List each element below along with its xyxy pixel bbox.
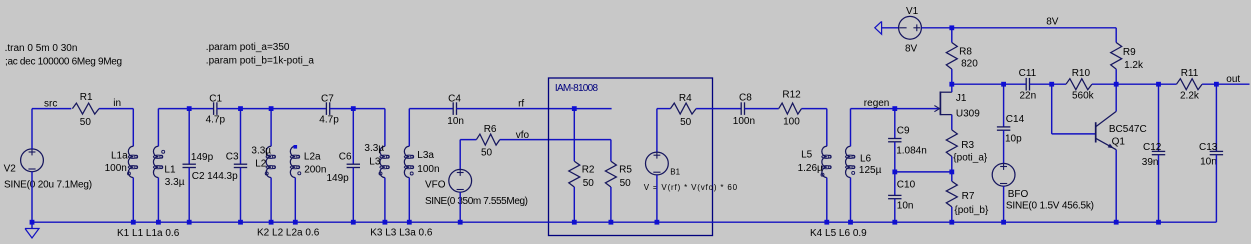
- junction: [655, 220, 660, 225]
- svg-text:560k: 560k: [1072, 91, 1095, 102]
- svg-text:3.3µ: 3.3µ: [364, 143, 384, 154]
- wire: [294, 178, 296, 223]
- svg-text:in: in: [113, 98, 121, 109]
- svg-text:R5: R5: [619, 164, 632, 175]
- svg-text:R1: R1: [80, 92, 93, 103]
- wire: [1115, 28, 1117, 43]
- svg-text:IAM-81008: IAM-81008: [555, 83, 599, 94]
- svg-text:L6: L6: [860, 153, 872, 164]
- wire: [1215, 155, 1217, 223]
- svg-text:100: 100: [783, 117, 800, 128]
- svg-text:.param poti_a=350: .param poti_a=350: [206, 42, 290, 53]
- svg-text:R6: R6: [484, 124, 497, 135]
- svg-text:V2: V2: [4, 164, 17, 175]
- spice directive K2: [257, 227, 320, 238]
- jfet J1: [934, 92, 980, 120]
- wire: [99, 108, 133, 110]
- junction: [1114, 82, 1119, 87]
- svg-text:K3 L3 L3a 0.6: K3 L3 L3a 0.6: [370, 227, 433, 238]
- capacitor C13: [1199, 142, 1223, 168]
- junction: [949, 25, 954, 30]
- svg-text:SINE(0 20u 7.1Meg): SINE(0 20u 7.1Meg): [4, 179, 92, 190]
- wire: [188, 109, 190, 165]
- svg-text:R11: R11: [1181, 68, 1199, 79]
- wire: [457, 108, 612, 110]
- junction: [238, 220, 243, 225]
- wire: [657, 108, 671, 110]
- resistor R12: [779, 90, 802, 128]
- wire: [951, 69, 953, 84]
- junction: [407, 220, 412, 225]
- wire: [895, 171, 952, 173]
- spice directive K3: [370, 227, 433, 238]
- wire: [1115, 150, 1117, 223]
- svg-text:C4: C4: [448, 94, 461, 105]
- junction: [156, 220, 161, 225]
- svg-text:B1: B1: [670, 167, 680, 176]
- svg-text:out: out: [1226, 74, 1240, 85]
- spice directive K1: [117, 228, 180, 239]
- svg-text:100n: 100n: [417, 164, 439, 175]
- resistor R8: [946, 43, 978, 70]
- svg-text:50: 50: [620, 178, 632, 189]
- node out: [1226, 74, 1240, 85]
- inductor L3: [364, 143, 389, 178]
- svg-text:4.7p: 4.7p: [319, 115, 339, 126]
- wire: [1030, 83, 1067, 85]
- svg-text:K2 L2 L2a 0.6: K2 L2 L2a 0.6: [257, 227, 320, 238]
- wire: [745, 108, 779, 110]
- resistor R10: [1066, 68, 1095, 102]
- junction: [949, 220, 954, 225]
- wire: [573, 187, 575, 222]
- svg-text:125µ: 125µ: [859, 165, 882, 176]
- wire: [330, 108, 385, 110]
- wire: [1092, 83, 1177, 85]
- wire: [826, 178, 828, 223]
- npn Q1: [1096, 111, 1147, 149]
- junction: [1156, 82, 1161, 87]
- svg-text:C3: C3: [226, 152, 239, 163]
- wire: [951, 115, 953, 130]
- capacitor C7: [319, 94, 339, 126]
- junction: [351, 106, 356, 111]
- box IAM-81008: [549, 78, 713, 236]
- wire: [459, 140, 461, 170]
- node src: [44, 98, 57, 109]
- svg-text:22n: 22n: [1020, 91, 1037, 102]
- wire: [894, 172, 896, 196]
- capacitor C3: [207, 152, 247, 182]
- ground: [875, 21, 882, 34]
- svg-text:10n: 10n: [1200, 157, 1217, 168]
- junction: [892, 170, 897, 175]
- wire: [696, 108, 741, 110]
- junction: [187, 106, 192, 111]
- spice directive .param poti_b: [206, 56, 315, 67]
- capacitor C14: [997, 114, 1025, 144]
- wire: [894, 199, 896, 223]
- svg-text:Q1: Q1: [1112, 137, 1126, 148]
- capacitor C4: [447, 94, 464, 128]
- wire: [1115, 84, 1117, 111]
- inductor L3a: [404, 146, 439, 177]
- svg-text:.param poti_b=1k-poti_a: .param poti_b=1k-poti_a: [206, 56, 315, 67]
- capacitor C12: [1142, 142, 1165, 168]
- svg-text:39n: 39n: [1142, 157, 1159, 168]
- wire: [952, 83, 1026, 85]
- svg-text:50: 50: [80, 117, 92, 128]
- wire: [500, 139, 611, 141]
- wire: [31, 172, 33, 223]
- wire: [408, 178, 410, 223]
- junction: [458, 220, 463, 225]
- svg-text:1.084n: 1.084n: [896, 146, 927, 157]
- svg-text:149p: 149p: [191, 152, 214, 163]
- wire: [656, 175, 658, 222]
- svg-text:C10: C10: [897, 179, 916, 190]
- svg-text:1.2k: 1.2k: [1124, 60, 1144, 71]
- svg-text:L3a: L3a: [417, 150, 434, 161]
- wire: [894, 142, 896, 172]
- wire: [850, 109, 852, 147]
- inductor L1a: [105, 146, 138, 177]
- wire: [270, 178, 272, 223]
- junction: [824, 220, 829, 225]
- junction: [572, 220, 577, 225]
- resistor R4: [670, 93, 696, 128]
- wire: [802, 108, 827, 110]
- capacitor C9: [888, 126, 927, 157]
- wire: [352, 168, 354, 223]
- wire: [217, 108, 327, 110]
- svg-text:50: 50: [481, 148, 493, 159]
- wire: [1051, 84, 1053, 134]
- capacitor C1: [206, 94, 226, 126]
- capacitor C11: [1019, 68, 1037, 102]
- svg-text:10n: 10n: [897, 201, 914, 212]
- resistor R9: [1111, 43, 1144, 71]
- wire: [270, 109, 272, 147]
- node rf: [518, 98, 524, 109]
- wire: [921, 27, 1116, 29]
- junction: [1214, 82, 1219, 87]
- svg-text:C13: C13: [1199, 142, 1218, 153]
- wire: [240, 109, 242, 165]
- svg-text:BC547C: BC547C: [1109, 124, 1147, 135]
- wire: [384, 178, 386, 223]
- junction: [1114, 220, 1119, 225]
- voltage source V1: [899, 6, 922, 55]
- junction: [1001, 220, 1006, 225]
- svg-text:rf: rf: [518, 98, 524, 109]
- svg-text:C1: C1: [209, 94, 222, 105]
- svg-text:C9: C9: [897, 126, 910, 137]
- junction: [892, 220, 897, 225]
- junction: [609, 220, 614, 225]
- wire: [850, 178, 852, 223]
- svg-text:C14: C14: [1006, 114, 1025, 125]
- svg-text:1.26µ: 1.26µ: [798, 163, 823, 174]
- junction: [848, 220, 853, 225]
- wire: [352, 109, 354, 165]
- junction: [1001, 82, 1006, 87]
- svg-text:C6: C6: [339, 152, 352, 163]
- svg-text:SINE(0 350m 7.555Meg): SINE(0 350m 7.555Meg): [425, 196, 528, 207]
- wire: [1003, 186, 1005, 222]
- svg-text:L2: L2: [255, 158, 267, 169]
- voltage source BFO: [992, 163, 1094, 211]
- capacitor C6: [327, 152, 361, 184]
- wire: [157, 109, 159, 147]
- junction: [949, 82, 954, 87]
- resistor R5: [605, 161, 632, 189]
- svg-text:SINE(0 1.5V 456.5k): SINE(0 1.5V 456.5k): [1006, 200, 1094, 211]
- inductor L5: [798, 146, 832, 177]
- svg-text:J1: J1: [956, 93, 967, 104]
- junction: [131, 220, 136, 225]
- spice directive .param poti_a: [206, 42, 290, 53]
- junction: [269, 106, 274, 111]
- svg-text:144.3p: 144.3p: [207, 171, 238, 182]
- junction: [572, 106, 577, 111]
- wire: [1052, 133, 1096, 135]
- wire: [851, 108, 940, 110]
- wire: [1003, 130, 1005, 163]
- junction: [187, 220, 192, 225]
- voltage source V2: [4, 149, 92, 191]
- wire: [951, 157, 953, 172]
- svg-text:100n: 100n: [105, 163, 127, 174]
- svg-text:{poti_a}: {poti_a}: [953, 152, 988, 163]
- svg-text:V1: V1: [906, 6, 919, 17]
- resistor R7: [946, 181, 989, 216]
- node vfo: [516, 130, 530, 141]
- floating pin marker L2a: [294, 145, 298, 149]
- svg-text:8V: 8V: [1046, 17, 1059, 28]
- svg-text:R2: R2: [582, 164, 595, 175]
- wire: [882, 27, 899, 29]
- ground: [25, 222, 39, 238]
- wire: [408, 109, 410, 147]
- svg-text:BFO: BFO: [1008, 189, 1029, 200]
- svg-text:R10: R10: [1072, 68, 1091, 79]
- svg-text:R7: R7: [962, 191, 975, 202]
- svg-text:regen: regen: [864, 98, 890, 109]
- resistor R1: [72, 92, 99, 128]
- wire: [240, 168, 242, 223]
- svg-text:C12: C12: [1143, 142, 1162, 153]
- wire: [132, 109, 134, 147]
- svg-text:src: src: [44, 98, 57, 109]
- svg-text:10p: 10p: [1005, 133, 1022, 144]
- resistor R11: [1177, 68, 1203, 102]
- wire: [1003, 84, 1005, 127]
- resistor R3: [946, 130, 988, 164]
- svg-text:K4 L5 L6 0.9: K4 L5 L6 0.9: [810, 228, 867, 239]
- wire: [951, 207, 953, 222]
- svg-text:U309: U309: [956, 108, 980, 119]
- svg-text:3.3µ: 3.3µ: [251, 145, 271, 156]
- svg-text:820: 820: [961, 58, 978, 69]
- junction: [238, 106, 243, 111]
- svg-text:R4: R4: [679, 93, 692, 104]
- capacitor C2: [183, 152, 214, 182]
- wire: [32, 221, 1216, 223]
- wire: [1158, 84, 1160, 151]
- wire: [610, 140, 612, 162]
- inductor L2: [251, 145, 275, 177]
- wire: [384, 109, 386, 147]
- inductor L2a: [290, 146, 326, 177]
- svg-text:L1: L1: [164, 164, 176, 175]
- wire: [894, 109, 896, 139]
- node in: [113, 98, 121, 109]
- svg-text:50: 50: [583, 178, 595, 189]
- wire: [409, 108, 453, 110]
- wire: [826, 109, 828, 147]
- inductor L6: [846, 146, 882, 177]
- svg-text:10n: 10n: [447, 116, 464, 127]
- wire: [573, 109, 575, 162]
- junction: [351, 220, 356, 225]
- inductor L1: [153, 146, 184, 188]
- svg-text:L1a: L1a: [111, 151, 128, 162]
- svg-text:VFO: VFO: [425, 180, 446, 191]
- svg-text:;ac dec 100000 6Meg 9Meg: ;ac dec 100000 6Meg 9Meg: [5, 56, 122, 67]
- svg-text:C7: C7: [321, 94, 334, 105]
- junction: [383, 220, 388, 225]
- junction: [1049, 82, 1054, 87]
- spice directive K4: [810, 228, 867, 239]
- spice directive .tran: [5, 43, 78, 54]
- junction: [269, 220, 274, 225]
- junction: [949, 170, 954, 175]
- capacitor C8: [733, 93, 755, 128]
- junction: [293, 220, 298, 225]
- svg-text:C11: C11: [1019, 68, 1037, 79]
- svg-text:R3: R3: [961, 140, 974, 151]
- junction: [30, 220, 35, 225]
- svg-text:L2a: L2a: [304, 151, 321, 162]
- wire: [1158, 155, 1160, 223]
- svg-text:V = V(rf) * V(vfo) * 60: V = V(rf) * V(vfo) * 60: [644, 183, 738, 192]
- svg-text:L5: L5: [801, 149, 813, 160]
- svg-text:vfo: vfo: [516, 130, 530, 141]
- bv source B1: [644, 152, 738, 192]
- wire: [459, 192, 461, 222]
- wire: [610, 187, 612, 222]
- svg-text:4.7p: 4.7p: [206, 115, 226, 126]
- wire: [1215, 84, 1217, 151]
- resistor R2: [569, 161, 595, 189]
- svg-text:149p: 149p: [327, 173, 350, 184]
- wire: [132, 178, 134, 223]
- spice directive ;ac: [5, 56, 122, 67]
- svg-text:100n: 100n: [733, 116, 755, 127]
- svg-text:C8: C8: [739, 93, 752, 104]
- wire: [31, 109, 33, 149]
- svg-text:R9: R9: [1123, 47, 1136, 58]
- voltage source VFO: [425, 169, 528, 207]
- svg-text:R12: R12: [782, 90, 801, 101]
- svg-text:.tran 0 5m 0 30n: .tran 0 5m 0 30n: [5, 43, 78, 54]
- svg-text:R8: R8: [959, 46, 972, 57]
- wire: [656, 109, 658, 153]
- svg-text:2.2k: 2.2k: [1180, 91, 1200, 102]
- svg-text:C2: C2: [192, 171, 205, 182]
- junction: [892, 106, 897, 111]
- wire: [460, 139, 476, 141]
- node 8V: [1046, 17, 1059, 28]
- wire: [157, 178, 159, 223]
- resistor R6: [476, 124, 499, 158]
- svg-text:8V: 8V: [905, 43, 918, 54]
- wire: [951, 28, 953, 43]
- node regen: [864, 98, 890, 109]
- junction: [1156, 220, 1161, 225]
- svg-text:K1 L1 L1a 0.6: K1 L1 L1a 0.6: [117, 228, 180, 239]
- capacitor C10: [888, 179, 915, 211]
- svg-text:200n: 200n: [304, 165, 326, 176]
- svg-text:{poti_b}: {poti_b}: [954, 205, 989, 216]
- svg-text:50: 50: [680, 117, 692, 128]
- svg-text:3.3µ: 3.3µ: [165, 177, 185, 188]
- wire: [1115, 69, 1117, 84]
- wire: [32, 108, 71, 110]
- wire: [158, 108, 213, 110]
- wire: [951, 84, 953, 92]
- wire: [1202, 83, 1249, 85]
- wire: [951, 172, 953, 181]
- wire: [188, 168, 190, 223]
- svg-text:L3: L3: [369, 157, 381, 168]
